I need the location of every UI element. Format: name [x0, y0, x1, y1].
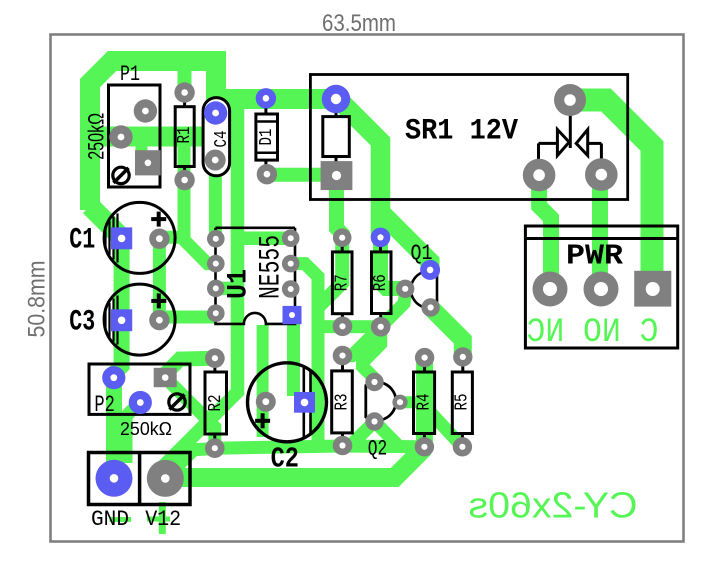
svg-text:R7: R7: [332, 274, 352, 291]
transistor Q1 body: [411, 271, 437, 308]
TRACES LAYER: [81, 58, 652, 534]
wire through R6: [381, 238, 405, 289]
wire U1 pin5 blue to C2 blue: [287, 316, 300, 396]
wire R6b to Q1 left pad: [381, 295, 406, 327]
pad U1.4: [207, 304, 225, 322]
pad C3 minus blue square: [111, 309, 132, 331]
pad R6 top blue: [371, 228, 391, 248]
wire diagonal into C1 blue pad: [90, 206, 122, 240]
pad R3 top: [333, 346, 353, 366]
pad C4 bottom: [205, 150, 226, 171]
capacitor C2: [248, 363, 327, 442]
wire V12 pad to R2 bottom: [165, 449, 215, 479]
wire U1 pin6R down right side of C2: [291, 264, 318, 449]
svg-text:R1: R1: [175, 127, 195, 144]
wire Q1 bottom to R5 top: [431, 308, 463, 359]
pad D1 top blue: [256, 88, 276, 108]
wire through R4: [416, 358, 433, 447]
relay contact diode symbol: [539, 114, 602, 162]
pad U1.8: [282, 229, 300, 247]
pad R5 top: [453, 347, 472, 366]
capacitor C4: [203, 98, 230, 176]
pad P2.3 square: [154, 368, 177, 387]
pad Q1 bottom: [421, 298, 439, 316]
wire V12 label cross: [147, 517, 170, 522]
svg-text:NE555: NE555: [255, 235, 289, 299]
pad Q2 bottom: [365, 412, 383, 430]
wire relay blue pad to R6 top: [334, 99, 381, 238]
pad Q1 left: [396, 280, 414, 298]
screw symbol P1: [113, 167, 129, 183]
wire branch to C1 gray pad: [159, 231, 184, 244]
pad C3 plus: [149, 310, 169, 330]
pad C1 plus: [149, 229, 169, 249]
pad SR1 NO: [523, 159, 556, 192]
svg-text:C3: C3: [69, 305, 95, 339]
pad U1.3: [207, 280, 225, 298]
svg-text:C2: C2: [271, 443, 299, 476]
wire band y=447 R2-R3-R4 bottoms: [215, 446, 425, 448]
wire R7b-R6b band: [318, 320, 381, 333]
wire branch to Q1 blue pad: [381, 212, 431, 270]
pad PWR C: [533, 272, 568, 307]
wire P2 square pad to R2 bottom: [165, 378, 215, 449]
resistor R2: [205, 358, 227, 448]
pad Q2 top: [365, 373, 383, 391]
pad U1.1: [207, 230, 225, 248]
plus mark C2: [255, 413, 270, 428]
pad P1.1: [134, 99, 157, 122]
connector PWR box: [525, 226, 677, 348]
wire relay top pad to PWR square pad: [568, 100, 652, 289]
svg-text:R4: R4: [415, 394, 435, 411]
svg-text:P2: P2: [94, 392, 115, 419]
wire R6b to Q2 top: [363, 327, 381, 383]
svg-text:50.8mm: 50.8mm: [24, 261, 51, 338]
svg-text:R5: R5: [453, 394, 473, 411]
resistor R7: [332, 238, 352, 326]
svg-text:C NO NC: C NO NC: [527, 314, 659, 352]
transistor Q2 body: [366, 382, 396, 420]
pad R5 bottom: [453, 437, 472, 456]
wire P2 square to R2 top: [165, 358, 216, 374]
wire stub R1 top: [178, 58, 192, 93]
pad GND blue: [96, 460, 133, 497]
connector GND V12 box: [89, 453, 191, 505]
resistor R6: [372, 238, 392, 327]
pad SR1 coil blue: [322, 85, 350, 113]
svg-text:PWR: PWR: [566, 240, 624, 273]
pad R4 bottom: [415, 437, 434, 456]
pad U1.7: [282, 255, 300, 273]
wire through R7: [318, 238, 342, 307]
svg-text:D1: D1: [257, 129, 277, 146]
pad R2 top: [205, 348, 225, 368]
svg-text:P1: P1: [120, 62, 140, 87]
resistor R1: [175, 93, 194, 181]
resistor R5: [452, 357, 472, 447]
wire C1 gray to C3 gray: [153, 239, 166, 320]
wire relay pad to PWR pad1: [539, 173, 551, 289]
pad U1.2: [207, 255, 225, 273]
pad P1.3 square: [135, 150, 161, 175]
pad R4 top: [415, 348, 434, 367]
wire GND label tick: [110, 517, 132, 522]
wire main power band top-left: [90, 61, 336, 210]
wire stub P1 square pad: [136, 140, 148, 160]
svg-text:V12: V12: [145, 506, 181, 532]
pad D1 bottom: [257, 164, 277, 184]
wire blue column C1-C3-P2-GND: [114, 238, 122, 478]
pad U1.6: [282, 280, 300, 298]
diode D1: [256, 98, 278, 174]
svg-text:R3: R3: [333, 394, 353, 411]
svg-text:250kΩ: 250kΩ: [120, 419, 172, 439]
wire band through P1 and R1 (y=136.5): [81, 127, 243, 147]
svg-text:C4: C4: [212, 131, 232, 148]
wire R4 to R5 bottom diagonal: [425, 406, 463, 447]
pad C2 plus: [256, 392, 276, 412]
wire P2 pad2 joins column: [126, 402, 140, 463]
capacitor C3: [104, 284, 175, 355]
pad R2 bottom: [205, 438, 225, 458]
plus mark C1: [151, 212, 166, 227]
wire R6b to R3 top: [343, 327, 381, 356]
pad C4 top blue: [204, 101, 227, 124]
resistor R4: [414, 358, 435, 447]
capacitor C1: [104, 202, 175, 273]
potentiometer P1: [109, 85, 161, 187]
wire stub at V12 label: [159, 502, 166, 534]
svg-text:R2: R2: [206, 395, 226, 412]
pad R3 bottom: [333, 436, 353, 456]
pad Q1 top blue: [420, 260, 440, 280]
wire Q2 bottom to R3 bottom: [343, 422, 400, 447]
wire relay pad to PWR pad2: [592, 173, 608, 289]
svg-text:250kΩ: 250kΩ: [84, 113, 109, 160]
svg-text:C1: C1: [69, 223, 95, 257]
wire Q2 right stub: [398, 396, 417, 408]
wire junction x=241 down to U1 pin8: [165, 101, 291, 478]
pad P1.2: [109, 125, 132, 148]
plus mark C3: [151, 293, 166, 308]
pad V12: [147, 460, 184, 497]
svg-text:Q2: Q2: [368, 437, 388, 462]
pad U1.5 blue square: [283, 306, 302, 324]
wire relay coil pad to R7 top: [337, 188, 343, 238]
pad R7 top: [333, 228, 352, 247]
resistor R3: [332, 356, 353, 446]
pad R1 bottom: [174, 170, 194, 190]
wire C4 bottom to U1 pad1: [209, 160, 222, 239]
pad P2.1 blue: [102, 366, 125, 389]
svg-text:U1: U1: [224, 269, 255, 299]
pad SR1 NC: [585, 158, 618, 191]
IC U1 NE555 body: [216, 228, 296, 324]
pad R6 bottom: [371, 317, 391, 337]
relay SR1 body: [310, 75, 627, 200]
wire R1 bottom to U1 pin7 and C1 plus: [184, 145, 216, 264]
pad R1 top: [174, 82, 194, 102]
svg-text:R6: R6: [371, 274, 391, 291]
pad SR1 common top: [554, 84, 586, 116]
wire V12 band bottom: [165, 448, 424, 478]
pad Q2 right: [392, 395, 407, 410]
svg-text:63.5mm: 63.5mm: [322, 10, 396, 37]
screw symbol P2: [169, 394, 185, 410]
pad PWR NO: [584, 272, 619, 307]
pad R7 bottom: [333, 317, 353, 337]
pad P2.2 blue: [129, 391, 152, 414]
wire notch trace to C2 gray: [257, 325, 269, 437]
pad C2 minus blue square: [294, 392, 315, 413]
svg-text:GND: GND: [91, 506, 129, 532]
potentiometer P2: [89, 364, 190, 414]
relay coil rect: [323, 99, 350, 165]
pad SR1 coil square: [321, 161, 353, 190]
svg-text:Q1: Q1: [411, 241, 433, 266]
pad C1 minus blue square: [111, 227, 132, 249]
wire D1 bottom to relay coil pad: [267, 168, 337, 182]
svg-text:SR1 12V: SR1 12V: [405, 115, 518, 149]
svg-text:CY-2x60s: CY-2x60s: [469, 485, 638, 526]
pad PWR NC square: [634, 271, 671, 307]
wire C3 gray to U1 pad4: [159, 311, 215, 324]
